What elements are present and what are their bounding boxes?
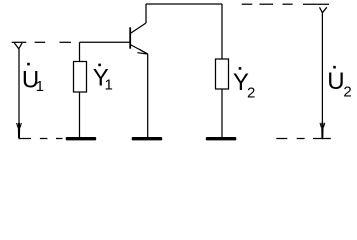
port terminal P2 (output, top bar): [303, 3, 329, 5]
transistor VT base bar: [129, 27, 131, 48]
wire base (node B to transistor base): [80, 41, 131, 43]
svg-text:U: U: [327, 68, 344, 95]
resistor Y1 (admittance box): [74, 62, 87, 93]
label U2: [327, 66, 352, 100]
ground G2 (emitter): [132, 137, 163, 140]
port P2 open arrowhead: [320, 7, 327, 12]
transistor VT emitter arrow: [139, 49, 148, 54]
wire Y1 to ground: [79, 92, 81, 137]
label Y1: [93, 64, 113, 94]
label Y2: [233, 67, 255, 102]
ground G1: [66, 137, 97, 140]
svg-text:2: 2: [247, 85, 255, 102]
wire Y2 to ground: [221, 89, 223, 137]
wire dashed output top (rail to P2): [242, 3, 253, 5]
label U1: [22, 63, 44, 95]
arrow U1 head (bottom, filled): [18, 123, 20, 140]
wire U1 voltage line: [18, 49, 20, 124]
wire dashed input top (P1 to node B): [35, 41, 46, 43]
port terminal P1 (input, top bar): [12, 41, 27, 43]
wire node B down to Y1: [79, 42, 81, 61]
svg-text:2: 2: [343, 83, 351, 100]
wire collector up: [145, 4, 147, 23]
port P1 open arrowhead: [14, 43, 22, 49]
ground G3: [206, 137, 237, 140]
wire top rail down to Y2: [221, 4, 223, 59]
svg-text:1: 1: [105, 76, 113, 93]
wire dashed bottom right (G3 to U2 arrow): [276, 138, 287, 140]
svg-text:1: 1: [36, 78, 44, 95]
arrow U2 head (bottom, filled): [321, 123, 323, 140]
resistor Y2 (admittance box): [216, 59, 229, 89]
wire top rail (collector to Y2): [146, 3, 222, 5]
transistor VT emitter diagonal: [130, 45, 148, 55]
wire U2 voltage line: [321, 13, 323, 123]
wire dashed bottom left (U1 arrow to G1): [20, 138, 32, 140]
transistor VT collector diagonal: [130, 23, 146, 34]
wire emitter down: [147, 54, 149, 137]
